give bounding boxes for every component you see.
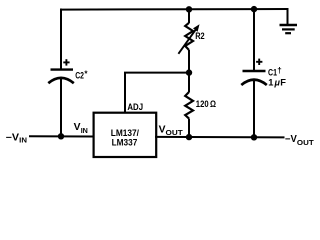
node junction C1 / output rail — [251, 134, 257, 140]
svg-text:1: 1 — [268, 77, 273, 87]
ground — [280, 9, 298, 33]
wire ADJ pin vertical — [124, 73, 126, 113]
capacitor C1 — [241, 9, 286, 138]
svg-text:OUT: OUT — [166, 128, 184, 137]
wire bottom left rail — [29, 135, 94, 137]
svg-text:C2: C2 — [75, 70, 84, 81]
node junction top R2 — [186, 6, 192, 12]
wire top rail — [60, 8, 289, 11]
node -VOUT terminal label — [285, 134, 314, 147]
svg-text:IN: IN — [81, 126, 88, 135]
resistor 120 ohm — [185, 73, 216, 138]
wire left branch lower — [60, 78, 62, 137]
wire ADJ horizontal — [124, 72, 189, 74]
resistor R2 (rheostat) — [178, 9, 204, 72]
node junction Vout rail — [186, 134, 192, 140]
node VIN pin label — [74, 122, 88, 135]
svg-text:F: F — [280, 77, 286, 87]
svg-text:OUT: OUT — [297, 138, 314, 147]
svg-text:Ω: Ω — [210, 99, 216, 109]
svg-text:LM337: LM337 — [112, 137, 138, 148]
node -VIN terminal label — [6, 132, 27, 144]
svg-text:†: † — [277, 66, 281, 75]
capacitor C2 — [48, 59, 88, 83]
svg-text:ADJ: ADJ — [127, 102, 143, 113]
node junction ADJ / R2 / 120 ohm — [186, 69, 192, 75]
svg-text:−V: −V — [285, 134, 297, 145]
node junction -Vin rail — [58, 133, 64, 139]
svg-text:−V: −V — [6, 132, 20, 143]
svg-text:120: 120 — [196, 99, 209, 109]
node VOUT pin label — [159, 125, 184, 138]
svg-text:R2: R2 — [195, 31, 205, 42]
svg-text:IN: IN — [19, 136, 27, 145]
regulator U1 LM137/LM337 box — [94, 113, 157, 157]
node junction top C1 — [251, 6, 257, 12]
wire output rail — [155, 136, 285, 139]
wire left branch upper — [60, 9, 62, 69]
